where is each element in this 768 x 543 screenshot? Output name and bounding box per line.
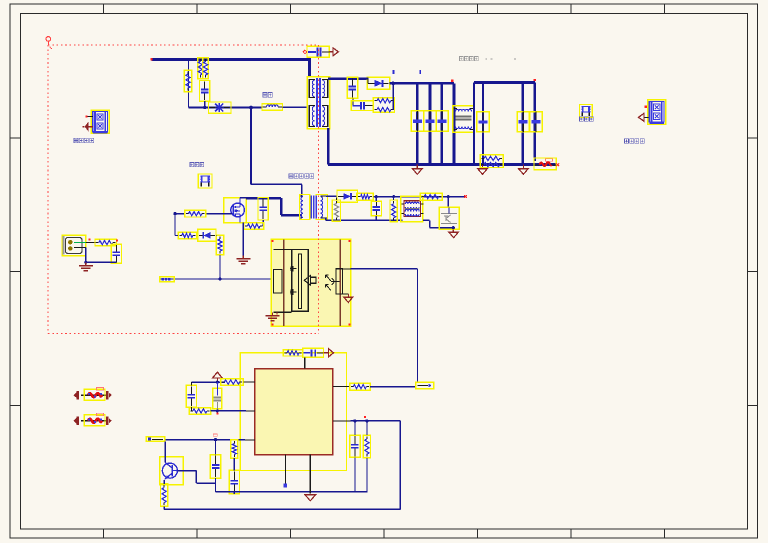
label common mode choke 共模电感 — [460, 57, 464, 61]
resistor R soft start — [231, 440, 238, 458]
arrow port terminal right — [644, 116, 649, 118]
wire snub link — [262, 220, 264, 226]
wire aux down — [85, 248, 87, 263]
red marker rail top — [451, 80, 453, 82]
power port arrow right of CY — [329, 51, 333, 53]
label terminal left 接线端子 — [74, 138, 78, 143]
wire driver input — [160, 278, 275, 280]
diode D rectifier — [367, 77, 390, 89]
power arrow vcc — [213, 372, 223, 378]
controller IC U1 body — [255, 369, 333, 455]
wire fuse to transformer — [283, 106, 308, 108]
wire driver output — [351, 268, 418, 270]
capacitor C sense — [350, 435, 360, 457]
red marker connector out — [89, 239, 91, 241]
resistor R startup B — [203, 58, 208, 79]
wire input sense drop — [188, 60, 190, 108]
wire fb to net label — [370, 386, 416, 388]
net label remote — [146, 437, 165, 442]
resistor R sense — [363, 435, 370, 458]
terminal block J2 right — [648, 100, 666, 124]
wire rail top second — [474, 81, 535, 84]
wire rail vertical 4 — [453, 83, 456, 164]
pin stub connector lower — [74, 247, 86, 249]
wire gate lead — [206, 213, 232, 215]
capacitor CE3 electrolytic — [436, 111, 448, 131]
current transformer CT1 — [300, 195, 310, 220]
wire CT secondary bottom — [325, 218, 327, 220]
capacitor C vcc gray — [213, 388, 222, 408]
capacitor C startup — [200, 81, 210, 102]
wire to pin left2 — [211, 410, 246, 412]
resistor R gate lower — [216, 235, 223, 255]
fusible resistor FR2 — [81, 420, 108, 422]
ground driver inner — [344, 297, 353, 302]
border tick marks — [103, 4, 105, 14]
ground aux earth — [85, 263, 87, 266]
net label tick A — [393, 70, 395, 74]
driver hybrid module U2 — [271, 239, 350, 326]
transistor Q2 pnp — [160, 457, 184, 485]
resistor R input sense — [184, 70, 191, 92]
wire into transformer primary — [308, 58, 311, 77]
resistor R source sense — [244, 223, 264, 230]
wire cap rail 483 — [482, 83, 484, 165]
resistor R gate — [185, 210, 206, 217]
wire CT sense bus — [373, 196, 465, 198]
capacitor C aux — [111, 244, 121, 263]
resistor network R snubber pair — [373, 98, 394, 112]
wire transformer secondary top out — [328, 77, 368, 80]
driver internal circuit — [292, 249, 309, 311]
net label driver input — [160, 277, 175, 282]
ground output rail 3 — [519, 169, 529, 175]
wire gate left drop — [174, 214, 176, 236]
wire vcc node — [191, 381, 225, 383]
red marker sense bus — [364, 416, 366, 418]
label terminal right 接线端子 — [625, 139, 629, 144]
wire emitter to bottom bus — [163, 506, 165, 509]
connector J3 aux — [62, 235, 86, 256]
wire gate lower drop — [219, 255, 221, 279]
wire transformer secondary return — [327, 128, 330, 165]
capacitor CE5 electrolytic — [517, 112, 529, 132]
red marker terminal right — [645, 106, 647, 108]
wire gate node — [175, 213, 185, 215]
red diamond marker CY left — [303, 50, 307, 54]
ground mosfet source earth — [242, 256, 244, 259]
wire CT to sense block — [447, 197, 449, 208]
red marker aux cap — [116, 239, 118, 241]
capacitor C CT filter — [371, 201, 381, 216]
capacitor C on vref wire — [303, 348, 324, 357]
red X marker rail end — [556, 163, 559, 166]
wire base Q2 — [177, 470, 196, 472]
resistor R CT out2 — [420, 193, 442, 200]
wire green connector out — [74, 242, 89, 244]
wire sense bus right — [351, 420, 401, 422]
red marker rail top right — [534, 79, 536, 81]
resistor R aux — [95, 239, 117, 246]
arrow port terminal left filled — [85, 122, 89, 132]
wire diode out junction — [390, 82, 454, 85]
diode D CT — [337, 190, 358, 202]
heatsink symbol right — [580, 105, 593, 118]
pin right1 controller — [333, 386, 350, 388]
ground output rail 1 — [413, 169, 423, 175]
red marker below gray cap — [216, 413, 218, 415]
thermistor RT red on rail — [534, 158, 556, 170]
no-ERC circle marker at dashed box corner — [46, 37, 51, 42]
resistor R vcc lower — [189, 408, 211, 415]
wire output ground rail — [328, 163, 557, 166]
terminal block J1 left — [91, 110, 109, 133]
common-mode choke L1 — [453, 106, 475, 132]
wire bus down to switch stage — [250, 108, 252, 185]
wire mid bottom bus — [216, 491, 368, 493]
ground output rail 2 — [478, 169, 488, 175]
fusible resistor FR1 — [81, 394, 108, 396]
resistor R startup A — [198, 58, 203, 79]
label heatsink right 散热器 — [580, 117, 584, 121]
wire cap rail 523 — [522, 83, 525, 165]
label heatsink left 散热器 — [190, 163, 194, 167]
wire rail vertical 1 — [416, 83, 419, 164]
wire rail vertical 2 — [429, 83, 432, 164]
red X marker CT bus end — [464, 195, 467, 198]
pin bottom2 controller — [309, 455, 311, 494]
resistor R CT out — [357, 193, 373, 200]
resistor R vcc — [221, 379, 244, 385]
junction lower input bus — [249, 106, 253, 110]
wire cap rail 535 — [533, 83, 536, 162]
red marker terminal left — [85, 115, 87, 117]
capacitor C snubber horizontal — [351, 101, 373, 111]
capacitor CE1 electrolytic — [411, 111, 423, 131]
red dashed boundary right edge overlay — [318, 45, 320, 334]
net label tick B — [419, 70, 421, 74]
arrow port vref — [324, 352, 329, 354]
capacitor C snubber top — [347, 77, 357, 98]
wire CT lower link — [423, 219, 430, 221]
wire rail vertical 3 — [440, 83, 443, 164]
resistor R on vref wire — [283, 350, 302, 356]
ground sense block — [452, 229, 454, 232]
capacitor CE6 electrolytic — [530, 112, 542, 132]
node marker input left end — [150, 58, 152, 60]
capacitor CE4 electrolytic — [477, 112, 489, 132]
red corner markers driver — [272, 240, 274, 242]
sense block U3 gray — [439, 207, 459, 229]
net label fb — [416, 382, 434, 389]
wire source down — [242, 223, 244, 258]
resistor network R bleed pair — [480, 155, 503, 168]
pin right2 controller — [333, 420, 351, 422]
pin stub terminal left — [87, 116, 93, 118]
mosfet Q1 power — [224, 198, 247, 223]
wire choke right rail — [473, 83, 475, 165]
wire bottom bus long — [164, 508, 400, 510]
capacitor CY bridge — [307, 46, 329, 57]
pin bottom1 controller — [284, 455, 286, 484]
fuse F1 — [262, 104, 283, 111]
resistor R emitter — [161, 484, 168, 506]
pin left3 wire — [165, 439, 245, 441]
ground controller — [305, 495, 316, 501]
transformer T1 main — [307, 77, 329, 129]
inductor L CT filter — [401, 196, 423, 221]
pin left1 controller — [243, 381, 254, 383]
capacitor CE2 electrolytic — [424, 111, 436, 131]
capacitor C vcc blue — [186, 385, 196, 407]
wire lower input bus — [189, 107, 263, 109]
resistor R fb out — [350, 383, 371, 390]
wire drain to CT — [240, 197, 246, 199]
resistor R CT load — [390, 200, 397, 222]
diode D gate — [198, 229, 216, 241]
resistor R CT gray vertical — [332, 200, 340, 221]
capacitor C soft start — [229, 470, 239, 493]
varistor RV1 — [209, 102, 232, 113]
capacitor C comp — [210, 455, 220, 479]
wire aux bottom — [86, 261, 117, 263]
resistor R gate pulldown row — [178, 232, 196, 239]
heatsink symbol left — [198, 174, 212, 188]
capacitor C drain snub — [258, 198, 268, 221]
red text marker junction — [213, 434, 217, 436]
pin top controller — [304, 357, 306, 368]
driver opto side — [336, 269, 342, 294]
wire AC input top thick — [152, 58, 310, 61]
label current transformer 电流互感器 — [289, 174, 293, 179]
wire snubber tie — [392, 83, 394, 110]
label fuse 熔线 — [263, 93, 267, 98]
red dashed boundary box — [48, 44, 319, 46]
wire CT secondary top — [326, 195, 337, 197]
controller boundary yellow — [240, 353, 346, 471]
ground driver left earth — [276, 312, 278, 314]
